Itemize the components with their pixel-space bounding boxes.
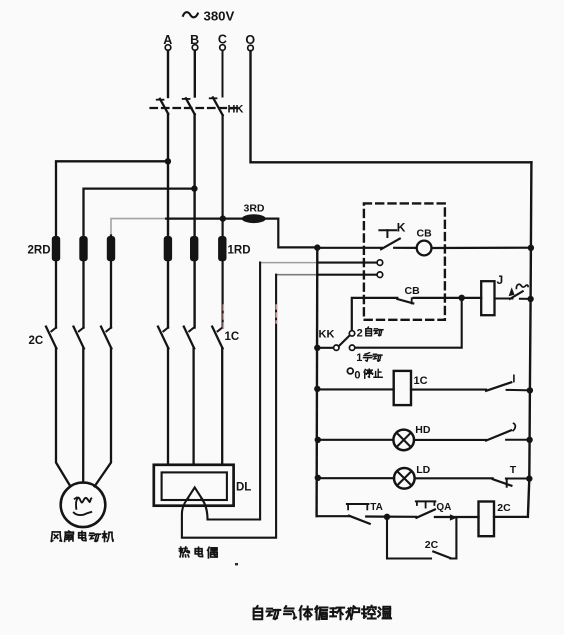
svg-text:1RD: 1RD bbox=[228, 245, 251, 257]
svg-text:3RD: 3RD bbox=[244, 203, 265, 215]
label fan-motor (CJK) bbox=[51, 532, 61, 541]
wire phase C to 1RD fuse bbox=[222, 115, 224, 327]
contactor contact 1C pole 3 bbox=[218, 328, 223, 332]
label ~380V supply bbox=[183, 12, 198, 17]
thermocouple lead 1 bbox=[202, 263, 261, 520]
wire right bus bbox=[528, 162, 532, 517]
svg-text:KK: KK bbox=[319, 329, 335, 341]
svg-text:HD: HD bbox=[415, 424, 431, 436]
switch KK blade bbox=[339, 335, 350, 346]
temperature controller dashed box bbox=[364, 203, 445, 319]
selector switch KK common bbox=[314, 345, 320, 351]
switch HK pole C blade bbox=[213, 97, 223, 115]
svg-text:2RD: 2RD bbox=[28, 245, 51, 257]
svg-text:T: T bbox=[510, 464, 517, 476]
wire 1C pole2 to heater bbox=[192, 348, 194, 465]
rung 2: CB contact feed from auto terminal bbox=[352, 298, 398, 331]
fuse 1RD fuse 2 bbox=[190, 236, 198, 261]
switch KK position 0 terminal bbox=[347, 368, 353, 374]
svg-text:1C: 1C bbox=[414, 375, 428, 387]
wire phase B drop to switch bbox=[194, 51, 196, 97]
thermocouple triangle bbox=[187, 487, 203, 500]
faint pink scan marks bbox=[222, 305, 224, 329]
wire 3RD to control bus bbox=[266, 219, 318, 248]
contactor contact 1C pole 1 bbox=[163, 328, 168, 332]
indicator CB (bell/lamp) bbox=[417, 241, 432, 256]
switch KK position 1 terminal bbox=[349, 345, 354, 350]
contactor coil 1C bbox=[394, 371, 411, 405]
rung 5: lamp LD bbox=[315, 475, 321, 481]
fuse 2RD fuse 1 bbox=[52, 236, 60, 261]
svg-text:HK: HK bbox=[228, 104, 244, 116]
node rung4 right bus bbox=[526, 437, 532, 443]
node rung2 manual tap bbox=[459, 295, 465, 301]
wire manual-mode bypass bbox=[355, 298, 462, 348]
svg-text:TA: TA bbox=[370, 502, 383, 513]
svg-text:0: 0 bbox=[354, 369, 360, 381]
wire phase B to 1RD fuse bbox=[193, 114, 195, 327]
node C branch junction bbox=[220, 215, 226, 221]
rung 3: 1C coil bbox=[314, 386, 320, 392]
switch HK linkage dashed line bbox=[151, 107, 240, 109]
node control feed bbox=[314, 244, 320, 250]
pushbutton QA (NO start) bbox=[416, 500, 435, 502]
wire 2C pole3 to motor bbox=[95, 348, 111, 486]
wire 2C self-hold branch bbox=[387, 517, 431, 559]
rung 1 wire left (to K) bbox=[317, 247, 382, 249]
svg-text:LD: LD bbox=[416, 464, 430, 476]
rung 2 wire to J coil bbox=[414, 297, 482, 299]
fuse 3RD bbox=[242, 214, 266, 223]
svg-text:DL: DL bbox=[236, 482, 251, 494]
label thermocouple (CJK) bbox=[179, 547, 189, 557]
svg-text:J: J bbox=[497, 273, 504, 287]
svg-text:1C: 1C bbox=[225, 331, 240, 343]
wire 1C pole1 to heater bbox=[167, 348, 169, 465]
lamp LD bbox=[394, 468, 415, 489]
contactor contact 2C pole 1 bbox=[51, 328, 56, 332]
node rung5 right bus bbox=[526, 475, 532, 481]
wire neutral O down and across top to right bus bbox=[251, 51, 532, 162]
contact J (rung 4) blade bbox=[486, 430, 511, 440]
node rung2 right bus bbox=[527, 296, 533, 302]
wire 1C pole3 to heater bbox=[221, 348, 223, 465]
wire 2C pole1 to motor bbox=[56, 348, 70, 486]
wire phase A to 1RD fuse bbox=[167, 114, 169, 328]
contact 2C self-hold blade bbox=[433, 552, 450, 559]
rung 1 wire right to bus bbox=[432, 247, 532, 250]
fuse 1RD fuse 1 bbox=[164, 236, 172, 261]
thermocouple lead 2 bbox=[182, 275, 276, 538]
switch K blade bbox=[381, 239, 400, 250]
svg-text:CB: CB bbox=[405, 285, 421, 297]
title: automatic gas circulation furnace temperature control (CJK) bbox=[254, 606, 263, 619]
switch HK pole B blade bbox=[186, 98, 195, 114]
svg-text:CB: CB bbox=[417, 228, 433, 240]
contact T (rung 5, NC) blade bbox=[493, 479, 512, 486]
thermocouple input terminal 2 bbox=[377, 272, 383, 278]
wire phase C drop to switch bbox=[222, 51, 224, 97]
svg-text:2C: 2C bbox=[497, 502, 511, 514]
heater DL inner box bbox=[162, 472, 227, 500]
node rung3 right bus bbox=[527, 387, 533, 393]
pushbutton TA (NC stop) bbox=[347, 503, 369, 505]
switch HK pole A blade bbox=[160, 99, 168, 114]
thermocouple input terminal 1 bbox=[377, 260, 383, 266]
contact after J (arrow contact) bbox=[495, 298, 513, 300]
wire branch C to 2RD fuse 3 and to 3RD bbox=[110, 236, 112, 328]
motor M (fan motor) bbox=[61, 483, 106, 528]
contactor contact 2C pole 2 bbox=[79, 328, 84, 332]
fuse 1RD fuse 3 bbox=[218, 236, 226, 261]
switch KK position 2 terminal bbox=[349, 331, 354, 336]
svg-text:2: 2 bbox=[357, 327, 363, 339]
node TA-QA junction bbox=[384, 514, 390, 520]
wire branch B to 2RD fuse 2 bbox=[84, 189, 195, 328]
contact CB blade bbox=[397, 299, 413, 303]
heater DL outer box bbox=[154, 465, 234, 506]
svg-text:2C: 2C bbox=[29, 335, 44, 347]
contactor contact 1C pole 2 bbox=[189, 328, 194, 332]
svg-text:1: 1 bbox=[356, 352, 362, 364]
svg-text:2C: 2C bbox=[425, 539, 439, 551]
svg-text:QA: QA bbox=[436, 502, 451, 513]
wire branch A to 2RD fuse 1 bbox=[56, 161, 168, 327]
contactor contact 2C pole 3 bbox=[106, 328, 111, 332]
rung 6: bottom (2C coil) bbox=[317, 515, 349, 517]
wire phase A drop to switch bbox=[167, 51, 169, 98]
contact J (rung 3) blade bbox=[486, 382, 511, 391]
rung 4: lamp HD bbox=[315, 437, 321, 443]
rung 1 wire middle bbox=[394, 247, 417, 249]
node B branch junction bbox=[191, 185, 197, 191]
node rung1 right bus bbox=[528, 245, 534, 251]
svg-text:380V: 380V bbox=[204, 9, 235, 24]
wire 2C pole2 to motor bbox=[82, 348, 84, 483]
node A branch junction bbox=[165, 158, 171, 164]
node QA output (arrow) bbox=[450, 514, 457, 520]
contactor coil 2C bbox=[479, 502, 495, 537]
svg-text:K: K bbox=[397, 221, 406, 235]
fuse 2RD fuse 3 bbox=[107, 236, 115, 261]
fuse 2RD fuse 2 bbox=[79, 236, 87, 261]
switch K fixed contact bbox=[379, 229, 396, 231]
control left bus bbox=[315, 247, 318, 516]
relay coil J bbox=[481, 281, 494, 315]
lamp HD bbox=[393, 430, 414, 451]
stray scan speck 1 bbox=[235, 563, 238, 565]
